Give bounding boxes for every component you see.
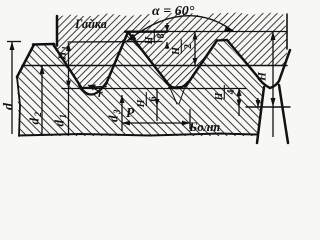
label d1 bbox=[52, 114, 69, 127]
groove2 right flank to tooth3 apex bbox=[186, 41, 217, 87]
H arrow up bbox=[271, 32, 276, 41]
svg-text:d: d bbox=[106, 115, 121, 122]
P arrow right bbox=[182, 121, 190, 126]
groove1 right flank to tooth2 apex bbox=[106, 32, 128, 84]
nut right edge bbox=[286, 14, 288, 49]
label d2 bbox=[27, 112, 44, 125]
d1 arrow up bbox=[66, 43, 71, 51]
arrowheads bbox=[10, 25, 276, 126]
bolt tooth 1 crest bbox=[33, 43, 54, 46]
H/6 dimension bbox=[156, 89, 158, 122]
nut section hatched area bbox=[51, 12, 287, 88]
contact flank 1 bbox=[53, 44, 81, 87]
svg-text:1: 1 bbox=[58, 114, 68, 119]
H/4 dimension bbox=[238, 89, 240, 117]
label d bbox=[2, 102, 17, 110]
svg-text:1: 1 bbox=[61, 46, 70, 50]
r leader bbox=[88, 85, 100, 92]
label H bbox=[257, 71, 269, 82]
groove1 flat bbox=[81, 87, 106, 89]
tooth3 right flank into funnel bbox=[227, 40, 270, 88]
arc right arrow bbox=[224, 26, 233, 32]
H/4 arrow down bbox=[237, 100, 242, 108]
fraction H/6 bbox=[136, 92, 159, 108]
profile strokes bbox=[17, 14, 290, 143]
svg-text:d: d bbox=[52, 120, 67, 127]
d3 dimension bbox=[121, 95, 123, 131]
funnel right side bbox=[270, 50, 290, 88]
nut root line over tooth2 thick bbox=[125, 31, 167, 33]
svg-text:6: 6 bbox=[148, 97, 159, 102]
bottom right extra arrow down bbox=[256, 100, 261, 107]
groove1 root rounding bbox=[79, 83, 106, 95]
H/2 dimension bbox=[194, 32, 196, 66]
svg-text:8: 8 bbox=[156, 34, 167, 39]
svg-text:Гайка: Гайка bbox=[74, 17, 107, 31]
angle arc bbox=[127, 16, 233, 41]
d1 / H1 dimension bbox=[68, 43, 70, 134]
label H1 bbox=[57, 46, 70, 61]
apex bottom line right bbox=[246, 106, 290, 108]
d3 arrow up bbox=[120, 95, 125, 103]
runout line left bbox=[257, 87, 264, 143]
svg-text:H: H bbox=[57, 51, 69, 61]
arc left arrow bbox=[127, 34, 137, 42]
svg-text:d: d bbox=[2, 102, 17, 110]
d2 arrow up bbox=[40, 66, 45, 75]
fraction H/8 bbox=[144, 29, 167, 45]
d-level reference line bbox=[68, 41, 162, 44]
r leader arrow bbox=[88, 85, 96, 91]
svg-text:d: d bbox=[27, 118, 42, 125]
H/2 arrow down bbox=[193, 58, 198, 66]
d dimension bbox=[7, 41, 21, 43]
svg-text:3: 3 bbox=[112, 109, 122, 115]
bolt left torn edge bbox=[17, 77, 20, 136]
H/2 arrow up bbox=[193, 32, 198, 40]
H1 arrow down bbox=[66, 81, 71, 89]
bolt section hatched area bbox=[17, 32, 264, 136]
svg-text:2: 2 bbox=[183, 44, 194, 49]
H/6 arrow down bbox=[155, 99, 160, 106]
svg-text:H: H bbox=[257, 71, 269, 82]
bolt bottom torn edge bbox=[19, 134, 257, 136]
H dimension bbox=[272, 32, 274, 138]
groove2 flat bbox=[169, 87, 186, 88]
groove2 root rounding bbox=[165, 81, 188, 88]
svg-text:H: H bbox=[214, 91, 225, 101]
svg-text:4: 4 bbox=[226, 90, 237, 95]
nut left edge bbox=[56, 16, 59, 46]
label d3 bbox=[106, 109, 123, 122]
svg-text:P: P bbox=[126, 105, 135, 120]
H arrow down bbox=[271, 98, 276, 107]
runout line right bbox=[279, 85, 288, 143]
pitch line bbox=[22, 65, 287, 67]
apex top line thin bbox=[167, 31, 287, 33]
tooth3 crest flat bbox=[217, 39, 227, 42]
d2 dimension bbox=[41, 66, 43, 135]
H/4 arrow up bbox=[237, 89, 242, 97]
svg-text:r: r bbox=[98, 86, 103, 100]
svg-text:α = 60°: α = 60° bbox=[152, 4, 195, 19]
svg-text:2: 2 bbox=[33, 112, 43, 118]
misc arrow line bottom right bbox=[257, 98, 259, 107]
P arrow left bbox=[122, 121, 130, 126]
groove2 V extension thin lines bbox=[170, 87, 185, 104]
P dimension bbox=[122, 122, 190, 124]
svg-text:H: H bbox=[171, 46, 182, 56]
tooth2 right flank bbox=[128, 32, 169, 85]
H/8 dimension bbox=[166, 23, 168, 49]
H/8 arrow up bbox=[165, 42, 170, 49]
d1 level reference line bbox=[62, 88, 246, 90]
fraction H/4 bbox=[214, 85, 237, 101]
bolt tooth 1 left flank bbox=[17, 45, 34, 78]
d arrow up bbox=[10, 42, 15, 51]
svg-text:H: H bbox=[136, 98, 147, 108]
fraction H/2 bbox=[171, 40, 194, 56]
svg-text:H: H bbox=[144, 35, 155, 45]
dimension lines bbox=[7, 23, 273, 137]
H/8 arrow down bbox=[165, 25, 170, 32]
svg-text:Болт: Болт bbox=[188, 119, 220, 134]
